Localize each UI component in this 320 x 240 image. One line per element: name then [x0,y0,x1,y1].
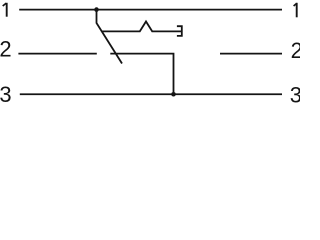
switch moving contact arm (common pole from 1) [97,10,123,64]
wire from contact to terminal 3 (horizontal + vertical drop) [110,54,173,95]
svg-text:2: 2 [0,37,12,62]
wire 1 (terminal 1 rail) [19,9,282,11]
wire 3 (terminal 3 rail) [20,93,282,95]
junction dot on wire 3 [171,92,176,97]
junction dot on wire 1 [94,7,99,12]
actuator end bracket [177,26,182,36]
terminal label 1 (left) [3,3,7,17]
terminal label 1 (right) [294,3,297,17]
svg-text:2: 2 [291,38,300,63]
svg-text:3: 3 [290,82,300,104]
wire 2 (right segment) [220,53,282,55]
svg-text:3: 3 [0,82,12,104]
wire 2 (left segment) [18,53,96,55]
actuator linkage with cam peak [102,22,181,32]
